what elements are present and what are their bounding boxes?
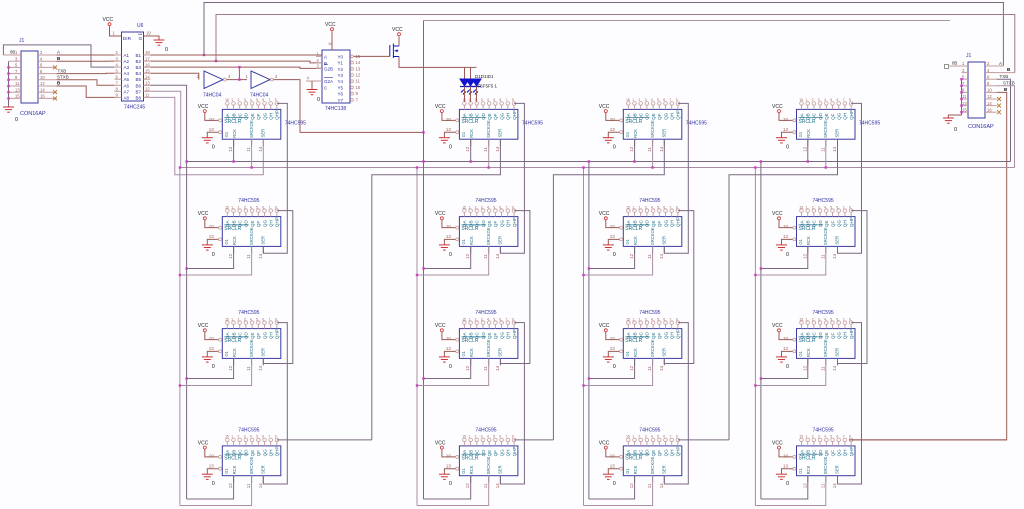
- svg-text:74HC595: 74HC595: [859, 121, 880, 127]
- svg-text:SRCKOE: SRCKOE: [486, 457, 491, 475]
- svg-text:0: 0: [212, 364, 215, 370]
- svg-text:15: 15: [15, 94, 20, 99]
- svg-text:QF: QF: [256, 450, 261, 457]
- junction RCK bus column 3: [588, 160, 590, 162]
- wire: row2 col4 pin11 jog: [755, 246, 825, 275]
- svg-text:QE: QE: [824, 332, 829, 339]
- svg-text:15: 15: [462, 435, 466, 439]
- LED D1 (1): [460, 79, 469, 102]
- svg-text:4: 4: [250, 435, 252, 439]
- svg-text:VCC: VCC: [599, 211, 610, 217]
- svg-text:3: 3: [481, 317, 483, 321]
- svg-text:RCK: RCK: [633, 465, 638, 474]
- svg-text:QD: QD: [244, 112, 249, 120]
- svg-text:0: 0: [449, 145, 452, 151]
- ground of U9: [202, 351, 219, 370]
- svg-text:QH: QH: [506, 220, 511, 227]
- svg-text:A1: A1: [124, 53, 130, 58]
- svg-text:4: 4: [651, 205, 653, 209]
- svg-text:VCC: VCC: [772, 440, 783, 446]
- svg-text:F5F5F5 1: F5F5F5 1: [478, 83, 498, 88]
- svg-text:10: 10: [610, 336, 616, 341]
- svg-text:15: 15: [225, 205, 229, 209]
- svg-text:74HC595: 74HC595: [238, 310, 259, 316]
- svg-text:0: 0: [613, 481, 616, 487]
- svg-text:SRCLR: SRCLR: [224, 119, 241, 125]
- svg-text:74HC595: 74HC595: [522, 121, 543, 127]
- svg-text:15: 15: [799, 317, 803, 321]
- svg-text:J1: J1: [19, 38, 25, 44]
- svg-text:QD: QD: [818, 332, 823, 340]
- svg-text:A7: A7: [124, 89, 130, 94]
- svg-text:QHP: QHP: [512, 110, 517, 120]
- svg-text:14: 14: [258, 365, 263, 371]
- svg-text:QE: QE: [651, 450, 656, 457]
- svg-text:0: 0: [786, 364, 789, 370]
- VCC symbol of U8: [772, 211, 793, 228]
- svg-text:SRCKOE: SRCKOE: [823, 227, 828, 245]
- wire: row3 col2 pin11 jog: [417, 358, 489, 385]
- wire: chain col1 row1 QHP to row2 SER: [263, 103, 287, 253]
- svg-text:G1: G1: [461, 238, 466, 244]
- svg-text:13: 13: [783, 463, 789, 468]
- svg-text:STXB: STXB: [57, 75, 69, 80]
- svg-text:7: 7: [506, 205, 508, 209]
- svg-text:RCK: RCK: [232, 129, 237, 138]
- svg-text:2: 2: [238, 98, 240, 102]
- svg-text:3: 3: [481, 98, 483, 102]
- svg-text:9: 9: [512, 98, 514, 102]
- svg-text:15: 15: [799, 435, 803, 439]
- svg-text:DIR: DIR: [123, 36, 132, 42]
- svg-text:B6: B6: [136, 83, 142, 88]
- inverter U7A 74HC04: [197, 71, 248, 99]
- svg-text:QH: QH: [670, 450, 675, 457]
- pins 12 11 14 of U12: [802, 358, 837, 371]
- svg-text:13: 13: [209, 463, 215, 468]
- svg-text:QE: QE: [651, 332, 656, 339]
- shift register U8 74HC595: [783, 205, 855, 246]
- svg-text:3: 3: [244, 98, 246, 102]
- svg-text:QHP: QHP: [512, 329, 517, 339]
- wire: chain col3 row4 QHP to col4 feed: [678, 439, 729, 441]
- svg-text:VCC: VCC: [198, 211, 209, 217]
- svg-text:13: 13: [610, 346, 616, 351]
- svg-text:G1: G1: [625, 131, 630, 137]
- svg-text:11: 11: [483, 366, 488, 371]
- svg-text:6: 6: [663, 435, 665, 439]
- VCC symbol of U12: [772, 323, 793, 340]
- svg-text:SRCKOE: SRCKOE: [486, 339, 491, 357]
- svg-text:VCC: VCC: [772, 211, 783, 217]
- svg-text:9: 9: [849, 435, 851, 439]
- svg-text:1: 1: [806, 205, 808, 209]
- wire: row1 col1 pin11 to SRCK bus: [251, 139, 253, 167]
- svg-text:VCC: VCC: [325, 22, 336, 28]
- svg-text:QHP: QHP: [275, 446, 280, 456]
- wire: chain col2 row1 QHP to row2 SER: [500, 103, 524, 253]
- svg-text:QG: QG: [663, 332, 668, 340]
- svg-text:6: 6: [837, 98, 839, 102]
- svg-text:G1: G1: [798, 350, 803, 356]
- svg-text:16: 16: [328, 41, 333, 46]
- svg-text:1: 1: [632, 317, 634, 321]
- svg-text:9: 9: [275, 435, 277, 439]
- svg-text:G1: G1: [461, 468, 466, 474]
- wire: branch B3 to inverter chain node: [238, 67, 240, 80]
- svg-text:B7: B7: [136, 89, 142, 94]
- svg-text:RCK: RCK: [806, 465, 811, 474]
- wire: chain col4 row4 QHP out: [851, 439, 1007, 441]
- svg-text:QHP: QHP: [676, 110, 681, 120]
- svg-text:13: 13: [962, 101, 967, 106]
- svg-text:2: 2: [812, 317, 814, 321]
- svg-text:VCC: VCC: [599, 440, 610, 446]
- svg-text:11: 11: [820, 366, 825, 371]
- svg-text:Y6: Y6: [338, 92, 344, 97]
- svg-text:5: 5: [830, 205, 832, 209]
- svg-text:11: 11: [246, 147, 251, 152]
- svg-text:QH: QH: [269, 220, 274, 227]
- svg-text:10: 10: [610, 224, 616, 229]
- pins 12 11 14 of U11: [629, 358, 664, 371]
- wire: hanging net line: [424, 20, 951, 22]
- svg-text:2: 2: [639, 317, 641, 321]
- wire: row2 col1 pin12 jog: [187, 246, 234, 268]
- svg-text:74HC04: 74HC04: [250, 93, 269, 99]
- svg-text:7: 7: [269, 435, 271, 439]
- VCC symbol of U10: [435, 323, 456, 340]
- svg-text:G1: G1: [625, 350, 630, 356]
- wire: row3 col3 pin12 jog: [589, 358, 635, 378]
- ground of U6 pin 19: [144, 31, 169, 54]
- VCC symbol of U9: [198, 323, 219, 340]
- svg-text:B5: B5: [136, 77, 142, 82]
- svg-text:0: 0: [317, 97, 320, 103]
- svg-text:15: 15: [462, 205, 466, 209]
- svg-text:74HC595: 74HC595: [813, 198, 834, 204]
- wire: U6.B3 to 74HC138.C: [151, 67, 323, 68]
- svg-text:9: 9: [849, 98, 851, 102]
- svg-text:SRCLR: SRCLR: [461, 455, 478, 461]
- svg-text:0: 0: [212, 145, 215, 151]
- svg-text:QH: QH: [843, 332, 848, 339]
- ground of U8: [776, 239, 793, 258]
- wire: U6.B2 to 74HC138.B: [151, 61, 323, 63]
- svg-text:QH: QH: [269, 332, 274, 339]
- wire: serial feed col4: [729, 139, 838, 440]
- svg-text:4: 4: [824, 317, 826, 321]
- svg-text:14: 14: [659, 483, 664, 489]
- svg-text:QE: QE: [824, 220, 829, 227]
- no-connect J1.14: [53, 90, 57, 94]
- svg-text:QHP: QHP: [849, 446, 854, 456]
- svg-text:11: 11: [820, 147, 825, 152]
- svg-text:QHP: QHP: [849, 329, 854, 339]
- wire: row4 col2 pin11 jog: [417, 476, 489, 506]
- svg-text:12: 12: [629, 146, 634, 152]
- svg-text:G1: G1: [461, 350, 466, 356]
- junction B3 branch top: [238, 66, 240, 68]
- svg-text:Y0: Y0: [338, 54, 344, 59]
- svg-text:11: 11: [483, 254, 488, 259]
- pins 12 11 14 of U13: [228, 476, 263, 489]
- svg-text:1: 1: [231, 205, 233, 209]
- svg-text:3: 3: [818, 98, 820, 102]
- wire: SRCK drop column 2: [416, 168, 418, 506]
- svg-text:74HC595: 74HC595: [475, 310, 496, 316]
- svg-text:12: 12: [629, 253, 634, 259]
- wire: line3 drop at col2: [423, 21, 425, 162]
- wire: J1R.6 TXB to RCK bus: [997, 79, 1011, 161]
- shift register U10 74HC595: [446, 317, 518, 358]
- svg-text:G1: G1: [224, 350, 229, 356]
- svg-text:QF: QF: [657, 221, 662, 228]
- shift register U11 74HC595: [610, 317, 682, 358]
- svg-text:SRCLR: SRCLR: [799, 338, 816, 344]
- ground of U14: [439, 469, 456, 488]
- svg-text:5: 5: [657, 205, 659, 209]
- svg-text:12: 12: [40, 81, 45, 86]
- svg-text:QF: QF: [493, 221, 498, 228]
- wire: U6.B4 to inverter input: [151, 73, 199, 79]
- svg-text:4: 4: [487, 205, 489, 209]
- svg-text:QHP: QHP: [512, 217, 517, 227]
- shift register U2 74HC595: [446, 98, 518, 139]
- svg-text:QHP: QHP: [512, 446, 517, 456]
- svg-text:G1: G1: [798, 238, 803, 244]
- svg-text:QG: QG: [499, 112, 504, 120]
- svg-text:B2: B2: [136, 59, 142, 64]
- svg-text:7: 7: [269, 205, 271, 209]
- svg-text:VCC: VCC: [599, 323, 610, 329]
- svg-text:15: 15: [225, 317, 229, 321]
- svg-text:VCC: VCC: [198, 323, 209, 329]
- svg-text:12: 12: [465, 365, 470, 371]
- svg-text:74HC595: 74HC595: [285, 121, 306, 127]
- svg-text:15: 15: [626, 98, 630, 102]
- wire: inverter output to SRCK drop: [274, 80, 424, 133]
- ground of U1: [202, 132, 219, 151]
- svg-text:4: 4: [651, 435, 653, 439]
- svg-text:10: 10: [40, 75, 45, 80]
- svg-text:12: 12: [629, 483, 634, 489]
- svg-text:4: 4: [250, 317, 252, 321]
- svg-text:12: 12: [802, 483, 807, 489]
- svg-text:QH: QH: [506, 332, 511, 339]
- wire: net B top bus to J1 right: [216, 15, 1015, 73]
- svg-text:QG: QG: [837, 220, 842, 228]
- svg-text:TXB: TXB: [58, 68, 67, 73]
- svg-text:0: 0: [613, 252, 616, 258]
- svg-text:QG: QG: [262, 112, 267, 120]
- svg-text:QHP: QHP: [849, 110, 854, 120]
- svg-text:12: 12: [465, 483, 470, 489]
- svg-text:11: 11: [356, 79, 361, 84]
- pins 12 11 14 of U4: [802, 139, 837, 152]
- svg-text:17: 17: [145, 56, 150, 61]
- wire: net A J1.2 to U6.A1: [57, 54, 115, 56]
- svg-text:13: 13: [446, 346, 452, 351]
- svg-text:QG: QG: [837, 332, 842, 340]
- wire: SRCK drop column 4: [754, 168, 756, 506]
- svg-text:15: 15: [462, 317, 466, 321]
- shift register U14 74HC595: [446, 435, 518, 476]
- svg-text:10: 10: [356, 85, 361, 90]
- svg-text:QD: QD: [645, 220, 650, 228]
- svg-text:SRCKOE: SRCKOE: [249, 339, 254, 357]
- pins 12 11 14 of U2: [465, 139, 500, 152]
- svg-text:A4: A4: [124, 71, 130, 76]
- svg-text:74HC595: 74HC595: [639, 310, 660, 316]
- wire: serial feed col2: [372, 139, 501, 440]
- wire: net STXB J1.10 to U6.A6: [57, 80, 115, 86]
- svg-text:G1: G1: [224, 131, 229, 137]
- svg-text:U6: U6: [137, 23, 144, 29]
- svg-text:13: 13: [15, 87, 20, 92]
- svg-text:CON16AP: CON16AP: [968, 124, 994, 130]
- svg-text:QE: QE: [487, 332, 492, 339]
- svg-text:1: 1: [231, 435, 233, 439]
- svg-text:15: 15: [962, 107, 967, 112]
- svg-text:QG: QG: [663, 112, 668, 120]
- svg-text:0: 0: [165, 47, 168, 53]
- svg-text:6: 6: [262, 205, 264, 209]
- wire: net B2 J1.12 to U6.A8: [57, 86, 115, 97]
- svg-text:SRCLR: SRCLR: [461, 226, 478, 232]
- svg-text:G1: G1: [798, 468, 803, 474]
- svg-text:6: 6: [837, 205, 839, 209]
- svg-text:QF: QF: [657, 333, 662, 340]
- svg-text:4: 4: [824, 98, 826, 102]
- svg-text:SRCLR: SRCLR: [461, 119, 478, 125]
- svg-text:A5: A5: [124, 77, 130, 82]
- svg-text:11: 11: [246, 483, 251, 488]
- svg-text:6: 6: [262, 317, 264, 321]
- svg-text:11: 11: [647, 147, 652, 152]
- svg-text:QH: QH: [670, 113, 675, 120]
- ground of U8: [307, 81, 321, 103]
- svg-text:3: 3: [244, 317, 246, 321]
- svg-text:5: 5: [657, 317, 659, 321]
- svg-text:VCC: VCC: [435, 211, 446, 217]
- svg-text:QHP: QHP: [676, 446, 681, 456]
- svg-text:RCK: RCK: [469, 129, 474, 138]
- svg-text:10: 10: [610, 117, 616, 122]
- svg-text:14: 14: [495, 253, 500, 259]
- wire: chain col1 row4 QHP to col2 feed: [277, 439, 372, 441]
- svg-text:14: 14: [832, 365, 837, 371]
- wire: chain col4 row3 QHP to row4 SER: [838, 323, 862, 484]
- svg-text:SER: SER: [661, 129, 666, 138]
- svg-text:2: 2: [475, 205, 477, 209]
- svg-text:2: 2: [475, 317, 477, 321]
- svg-text:11: 11: [15, 81, 20, 86]
- svg-text:QHP: QHP: [676, 217, 681, 227]
- svg-text:5: 5: [256, 98, 258, 102]
- svg-text:QD: QD: [244, 220, 249, 228]
- svg-text:14: 14: [258, 146, 263, 152]
- svg-text:14: 14: [495, 146, 500, 152]
- connector J1 CON16AP (right): [945, 53, 997, 130]
- svg-text:VCC: VCC: [772, 104, 783, 110]
- wire: row4 col2 pin12 jog: [424, 476, 471, 499]
- ground of U13: [202, 469, 219, 488]
- svg-text:9: 9: [676, 205, 678, 209]
- wire: net B J1.4 to U6.A2: [57, 60, 109, 62]
- wire: row2 col3 pin12 jog: [589, 246, 635, 268]
- svg-text:6: 6: [499, 98, 501, 102]
- ground of J1 (right): [943, 118, 957, 133]
- svg-text:QF: QF: [256, 221, 261, 228]
- svg-text:QH: QH: [506, 450, 511, 457]
- svg-text:SER: SER: [835, 236, 840, 245]
- svg-text:10: 10: [783, 336, 789, 341]
- svg-text:14: 14: [659, 253, 664, 259]
- svg-text:5: 5: [256, 435, 258, 439]
- svg-text:2: 2: [238, 205, 240, 209]
- svg-text:12: 12: [145, 87, 150, 92]
- svg-text:10: 10: [610, 453, 616, 458]
- svg-text:QG: QG: [499, 332, 504, 340]
- svg-text:J1: J1: [966, 53, 972, 59]
- shift register U16 74HC595: [783, 435, 855, 476]
- svg-text:4: 4: [487, 98, 489, 102]
- svg-text:QH: QH: [269, 450, 274, 457]
- svg-text:QG: QG: [663, 449, 668, 457]
- svg-text:10: 10: [446, 453, 452, 458]
- wire: SRCK drop column 3: [583, 168, 585, 506]
- svg-text:14: 14: [832, 253, 837, 259]
- svg-text:SER: SER: [835, 129, 840, 138]
- svg-text:14: 14: [495, 483, 500, 489]
- svg-text:SER: SER: [260, 236, 265, 245]
- wire: row1 col1 pin12 to RCK bus: [233, 139, 235, 161]
- svg-text:4: 4: [487, 435, 489, 439]
- svg-text:11: 11: [962, 94, 967, 99]
- svg-text:SRCLR: SRCLR: [224, 226, 241, 232]
- junction SRCK bus column 3: [582, 166, 584, 168]
- svg-text:QF: QF: [493, 333, 498, 340]
- ground of U16: [776, 469, 793, 488]
- wire: chain col3 row1 QHP to row2 SER: [664, 103, 688, 253]
- svg-text:2: 2: [812, 98, 814, 102]
- svg-text:7: 7: [843, 98, 845, 102]
- svg-text:QF: QF: [657, 113, 662, 120]
- svg-text:5: 5: [493, 205, 495, 209]
- svg-text:12: 12: [802, 365, 807, 371]
- svg-text:5: 5: [493, 435, 495, 439]
- svg-text:Y7: Y7: [338, 98, 344, 103]
- pins 12 11 14 of U9: [228, 358, 263, 371]
- svg-text:RCK: RCK: [806, 236, 811, 245]
- svg-text:3: 3: [645, 205, 647, 209]
- svg-text:2: 2: [639, 435, 641, 439]
- VCC symbol of U6 pin 1: [103, 17, 122, 36]
- junction B3 branch bottom: [238, 78, 240, 80]
- svg-text:14: 14: [40, 87, 45, 92]
- svg-text:QG: QG: [262, 220, 267, 228]
- svg-text:SRCLR: SRCLR: [799, 455, 816, 461]
- wire: row1 col2 pin12 to RCK bus: [470, 139, 472, 161]
- svg-text:7: 7: [269, 317, 271, 321]
- svg-text:SRCKOE: SRCKOE: [650, 120, 655, 138]
- svg-text:SRCKOE: SRCKOE: [249, 227, 254, 245]
- svg-text:6: 6: [499, 205, 501, 209]
- wire: J1R.8 STXB to SRCK bus: [997, 86, 1015, 168]
- svg-text:0: 0: [786, 252, 789, 258]
- svg-text:STXB: STXB: [1003, 80, 1015, 85]
